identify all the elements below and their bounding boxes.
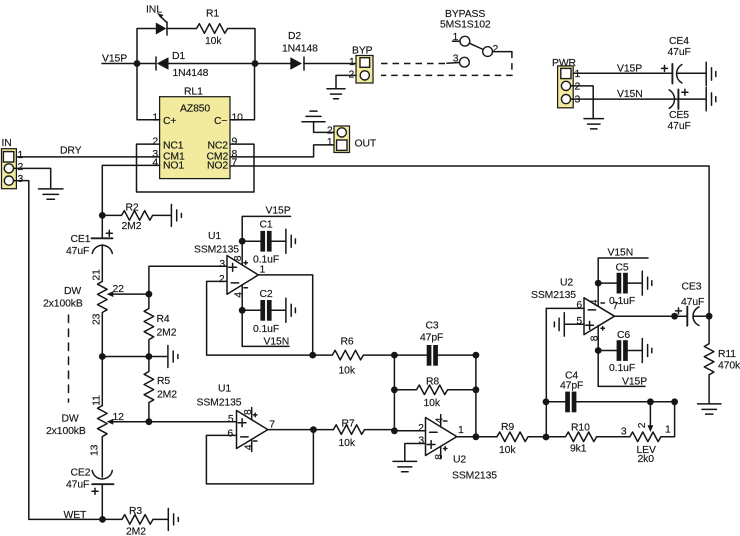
svg-text:47uF: 47uF [66, 246, 89, 257]
ground (CE5, right-facing) [706, 87, 716, 110]
svg-text:SSM2135: SSM2135 [197, 398, 242, 409]
svg-text:2: 2 [493, 44, 499, 55]
resistor R7 10k [333, 418, 394, 449]
svg-text:2: 2 [219, 274, 225, 285]
svg-text:47uF: 47uF [66, 479, 89, 490]
wire BYP pin2 to ground [336, 75, 356, 88]
svg-text:9k1: 9k1 [570, 443, 587, 454]
svg-text:4: 4 [234, 292, 245, 298]
svg-text:3: 3 [453, 53, 459, 64]
wire U2a pin3 to ground [405, 444, 426, 462]
ground (U2a) [393, 461, 417, 471]
svg-text:9: 9 [232, 137, 238, 148]
svg-text:1: 1 [18, 150, 24, 161]
ground (R2, right-facing) [171, 204, 181, 226]
wire C3/R8 left rail [393, 355, 395, 431]
svg-text:47pF: 47pF [420, 333, 443, 344]
svg-text:4: 4 [244, 444, 255, 450]
svg-text:SSM2135: SSM2135 [531, 290, 576, 301]
wire wiper 12 to U1b pin5 [149, 421, 237, 423]
capacitor CE5 47uF [668, 89, 706, 132]
svg-text:DW: DW [62, 414, 79, 425]
svg-text:8: 8 [243, 409, 254, 415]
svg-text:U2: U2 [453, 455, 466, 466]
ground (R3, right-facing) [168, 508, 178, 530]
svg-text:12: 12 [113, 412, 125, 423]
ground (inverted, OUT) [302, 111, 325, 122]
dashed wire to BYP pin2 [381, 52, 512, 76]
svg-text:R2: R2 [126, 203, 139, 214]
svg-text:0.1uF: 0.1uF [609, 363, 635, 374]
relay RL1 AZ850 [152, 86, 243, 178]
svg-text:5: 5 [576, 316, 582, 327]
svg-text:2: 2 [327, 125, 333, 136]
svg-text:0.1uF: 0.1uF [253, 324, 279, 335]
svg-text:2M2: 2M2 [126, 527, 146, 536]
svg-text:IN: IN [2, 138, 12, 149]
svg-text:2: 2 [418, 423, 424, 434]
wire U2b pin6 rail down to R9/R10 node [545, 308, 547, 437]
svg-text:CE5: CE5 [669, 110, 689, 121]
svg-text:SSM2135: SSM2135 [194, 245, 239, 256]
svg-text:23: 23 [92, 313, 103, 325]
wire CM2 pin8 to OUT [230, 145, 334, 157]
svg-text:5: 5 [228, 414, 234, 425]
ground (R11) [698, 404, 722, 414]
resistor R4 2M2 [144, 294, 177, 356]
svg-text:C+: C+ [163, 116, 176, 127]
svg-text:V15N: V15N [264, 337, 290, 348]
svg-text:R10: R10 [571, 423, 590, 434]
resistor R8 10k [394, 377, 476, 409]
wire NO2 pin7 (long) [230, 166, 709, 316]
node junction [595, 280, 602, 287]
svg-text:2: 2 [18, 162, 24, 173]
svg-text:1: 1 [260, 265, 266, 276]
svg-text:NC2: NC2 [208, 141, 229, 152]
node junction WET [99, 516, 106, 523]
svg-text:BYP: BYP [352, 46, 373, 57]
svg-text:2: 2 [575, 82, 581, 93]
potentiometer LEV 2k0 [621, 402, 675, 465]
svg-text:5MS1S102: 5MS1S102 [440, 20, 491, 31]
connector PWR [552, 58, 581, 108]
svg-text:47pF: 47pF [560, 381, 583, 392]
svg-text:2M2: 2M2 [122, 221, 142, 232]
svg-text:C6: C6 [617, 330, 630, 341]
svg-text:7: 7 [232, 158, 238, 169]
resistor R5 2M2 [144, 357, 177, 422]
svg-text:3: 3 [18, 174, 24, 185]
node junction [595, 347, 602, 354]
dashed gang line [68, 315, 70, 402]
svg-text:U1: U1 [218, 384, 231, 395]
wire wiper to U1a pin3 [149, 266, 227, 294]
net DRY wire CM1 pin3 [16, 146, 159, 157]
svg-text:1: 1 [453, 32, 459, 43]
dashed wire BYP1 to switch pin3 [381, 63, 447, 65]
ground (C6, right-facing) [642, 339, 652, 363]
net V15N (U2b top) [598, 248, 648, 283]
svg-text:D2: D2 [288, 31, 301, 42]
svg-text:2x100kB: 2x100kB [46, 426, 86, 437]
node junction [252, 60, 259, 67]
wire U2b output [615, 315, 688, 317]
svg-text:R5: R5 [157, 376, 170, 387]
svg-text:DW: DW [64, 286, 81, 297]
svg-text:10k: 10k [424, 398, 441, 409]
svg-text:47uF: 47uF [668, 121, 691, 132]
svg-text:C2: C2 [260, 289, 273, 300]
wire pin3 input is drawn; pin2 feedback [207, 281, 313, 355]
node junction [706, 313, 713, 320]
svg-text:3: 3 [418, 435, 424, 446]
wire U2b pin6 [546, 307, 584, 309]
node junction [99, 353, 106, 360]
svg-text:0.1uF: 0.1uF [609, 296, 635, 307]
node junction R9/R10 [543, 434, 550, 441]
capacitor CE1 47uF [66, 215, 113, 281]
svg-text:1N4148: 1N4148 [173, 68, 209, 79]
net V15P (U1a top) [242, 206, 290, 242]
svg-text:470k: 470k [718, 361, 740, 372]
svg-text:2k0: 2k0 [638, 454, 655, 465]
svg-text:2x100kB: 2x100kB [43, 298, 83, 309]
node junction [309, 352, 316, 359]
svg-text:U1: U1 [208, 231, 221, 242]
wire NC1-NC2 loop [137, 144, 255, 192]
op-amp U2 (section B) SSM2135 [531, 277, 619, 350]
svg-text:OUT: OUT [355, 139, 377, 150]
net V15N wire PWR pin3 [571, 89, 675, 100]
wire C+ pin1 [137, 64, 160, 120]
svg-text:3: 3 [575, 95, 581, 106]
wire [137, 63, 156, 65]
capacitor CE3 47uF [676, 282, 710, 326]
net V15P wire PWR pin1 [573, 63, 672, 74]
ground (PWR) [584, 119, 604, 129]
node junction (NO1/R2/CE1) [99, 212, 106, 219]
svg-text:3: 3 [621, 426, 627, 437]
svg-text:47uF: 47uF [668, 47, 691, 58]
svg-text:R6: R6 [341, 336, 354, 347]
diode D1 1N4148 [156, 51, 255, 79]
node junction [146, 353, 153, 360]
wire switch pin2 [493, 51, 512, 53]
svg-text:DRY: DRY [60, 146, 82, 157]
svg-text:1: 1 [458, 425, 464, 436]
switch BYPASS 5MS1S102 [440, 9, 499, 67]
wire OUT pin2 to ground [314, 122, 334, 133]
net V15N (U1a bottom) [242, 310, 289, 347]
node junction (wiper 22) [146, 291, 153, 298]
wire U1a output [258, 275, 312, 355]
svg-text:U2: U2 [560, 277, 573, 288]
resistor R3 2M2 [103, 506, 169, 536]
resistor R2 2M2 [102, 203, 171, 232]
svg-text:R7: R7 [342, 418, 355, 429]
svg-text:V15P: V15P [617, 63, 642, 74]
capacitor C3 47pF [394, 321, 476, 366]
svg-text:10k: 10k [339, 365, 356, 376]
svg-text:2: 2 [152, 137, 158, 148]
capacitor C4 47pF [546, 370, 675, 412]
wire IN pin2 to ground [14, 168, 51, 189]
wire U1b output [268, 429, 334, 431]
svg-text:8: 8 [434, 454, 445, 460]
wire pots common ground row [102, 313, 167, 406]
svg-text:NO1: NO1 [163, 160, 184, 171]
svg-text:R8: R8 [426, 377, 439, 388]
ground (pots, right-facing) [168, 346, 178, 368]
svg-text:V15P: V15P [266, 206, 291, 217]
svg-text:10k: 10k [205, 36, 222, 47]
svg-text:1: 1 [152, 112, 158, 123]
node junctions C4 row [543, 398, 550, 405]
svg-text:RL1: RL1 [184, 86, 203, 97]
svg-text:13: 13 [90, 444, 101, 456]
wire [102, 63, 137, 65]
connector OUT [327, 125, 377, 152]
svg-text:V15N: V15N [608, 248, 634, 259]
wire [447, 62, 460, 65]
connector IN [2, 138, 24, 189]
resistor R10 9k1 [546, 423, 630, 455]
svg-text:4: 4 [589, 299, 600, 305]
resistor R6 10k [313, 336, 395, 376]
svg-text:R4: R4 [157, 314, 170, 325]
net V15P (U2b bottom) [598, 351, 647, 388]
svg-text:C1: C1 [260, 220, 273, 231]
wire U2b pin5 to ground [564, 323, 584, 325]
ground (C2, right-facing) [286, 298, 296, 322]
resistor R9 10k [497, 422, 546, 456]
svg-text:SSM2135: SSM2135 [452, 471, 497, 482]
op-amp U1 (section A) SSM2135 [194, 231, 266, 310]
svg-text:47uF: 47uF [681, 297, 704, 308]
capacitor C1 0.1uF [242, 220, 286, 266]
svg-text:8: 8 [233, 255, 244, 261]
ground (BYP) [327, 89, 345, 99]
node junction [134, 60, 141, 67]
svg-text:INL: INL [146, 5, 162, 16]
svg-text:2M2: 2M2 [157, 328, 177, 339]
potentiometer DW 2x100kB (upper) [43, 269, 149, 325]
wire PWR pin2 to ground [571, 86, 594, 119]
svg-text:1: 1 [327, 137, 333, 148]
svg-text:C−: C− [214, 116, 227, 127]
svg-text:R1: R1 [206, 9, 219, 20]
wire C- pin10 [230, 64, 255, 120]
wire U2a output [457, 436, 497, 438]
ground (C5, right-facing) [642, 271, 652, 295]
svg-text:22: 22 [113, 284, 125, 295]
wire U2a pin2 [394, 430, 425, 432]
ground (IN) [39, 189, 64, 199]
capacitor C5 0.1uF [598, 263, 642, 307]
svg-text:C3: C3 [426, 321, 439, 332]
ground (U2b, left-facing) [554, 313, 564, 337]
svg-text:6: 6 [227, 428, 233, 439]
op-amp U2 (section A) SSM2135 [418, 415, 497, 482]
node junction [671, 313, 678, 320]
svg-text:R3: R3 [129, 506, 142, 517]
node junction [239, 238, 246, 245]
svg-text:8: 8 [589, 335, 600, 341]
svg-text:C5: C5 [616, 263, 629, 274]
LED INL [146, 5, 167, 36]
svg-text:2: 2 [637, 422, 648, 428]
svg-text:CE4: CE4 [669, 36, 689, 47]
svg-text:CE2: CE2 [71, 467, 91, 478]
diode D2 1N4148 [255, 31, 356, 70]
svg-text:11: 11 [92, 395, 103, 406]
svg-text:V15P: V15P [622, 377, 647, 388]
svg-text:10k: 10k [499, 445, 516, 456]
wire U1b feedback pin6 [206, 430, 313, 484]
capacitor C6 0.1uF [598, 330, 642, 374]
resistor R1 10k [167, 9, 255, 64]
node junction (wiper 12) [146, 418, 153, 425]
svg-text:1: 1 [349, 57, 355, 68]
svg-text:PWR: PWR [552, 58, 577, 69]
potentiometer DW 2x100kB (lower) [46, 395, 149, 456]
capacitor C2 0.1uF [242, 289, 286, 335]
svg-text:AZ850: AZ850 [180, 104, 210, 115]
net V15P (left) [102, 54, 137, 65]
svg-text:10: 10 [232, 112, 244, 123]
connector BYP [349, 46, 374, 84]
node junction [239, 307, 246, 314]
node junction [310, 426, 317, 433]
svg-text:0.1uF: 0.1uF [253, 255, 279, 266]
svg-text:NC1: NC1 [163, 141, 184, 152]
wire [137, 29, 156, 64]
svg-text:CE1: CE1 [71, 234, 91, 245]
capacitor CE4 47uF [662, 36, 706, 84]
op-amp U1 (section B) SSM2135 [197, 384, 276, 452]
svg-text:V15N: V15N [617, 89, 643, 100]
resistor R11 470k [704, 316, 740, 404]
svg-text:21: 21 [92, 269, 103, 281]
svg-text:BYPASS: BYPASS [445, 9, 485, 20]
wire C3/R8 right rail [475, 355, 477, 437]
node junctions C3/R8 rails [391, 352, 398, 359]
capacitor CE2 47uF [66, 437, 114, 520]
svg-text:1: 1 [575, 69, 581, 80]
svg-text:NO2: NO2 [207, 160, 228, 171]
svg-text:6: 6 [576, 300, 582, 311]
svg-text:CE3: CE3 [682, 282, 702, 293]
ground (CE4, right-facing) [706, 62, 716, 85]
svg-text:D1: D1 [172, 51, 185, 62]
svg-text:2M2: 2M2 [157, 390, 177, 401]
ground (C1, right-facing) [286, 229, 296, 253]
svg-text:4: 4 [152, 158, 158, 169]
svg-text:R9: R9 [501, 422, 514, 433]
wire NO1 pin4 [102, 165, 159, 215]
svg-text:1N4148: 1N4148 [282, 44, 318, 55]
svg-text:R11: R11 [718, 349, 736, 360]
svg-text:3: 3 [219, 259, 225, 270]
svg-text:10k: 10k [339, 438, 356, 449]
svg-text:1: 1 [665, 425, 671, 436]
svg-text:WET: WET [64, 510, 88, 521]
wire IN pin3 to WET [14, 181, 103, 520]
